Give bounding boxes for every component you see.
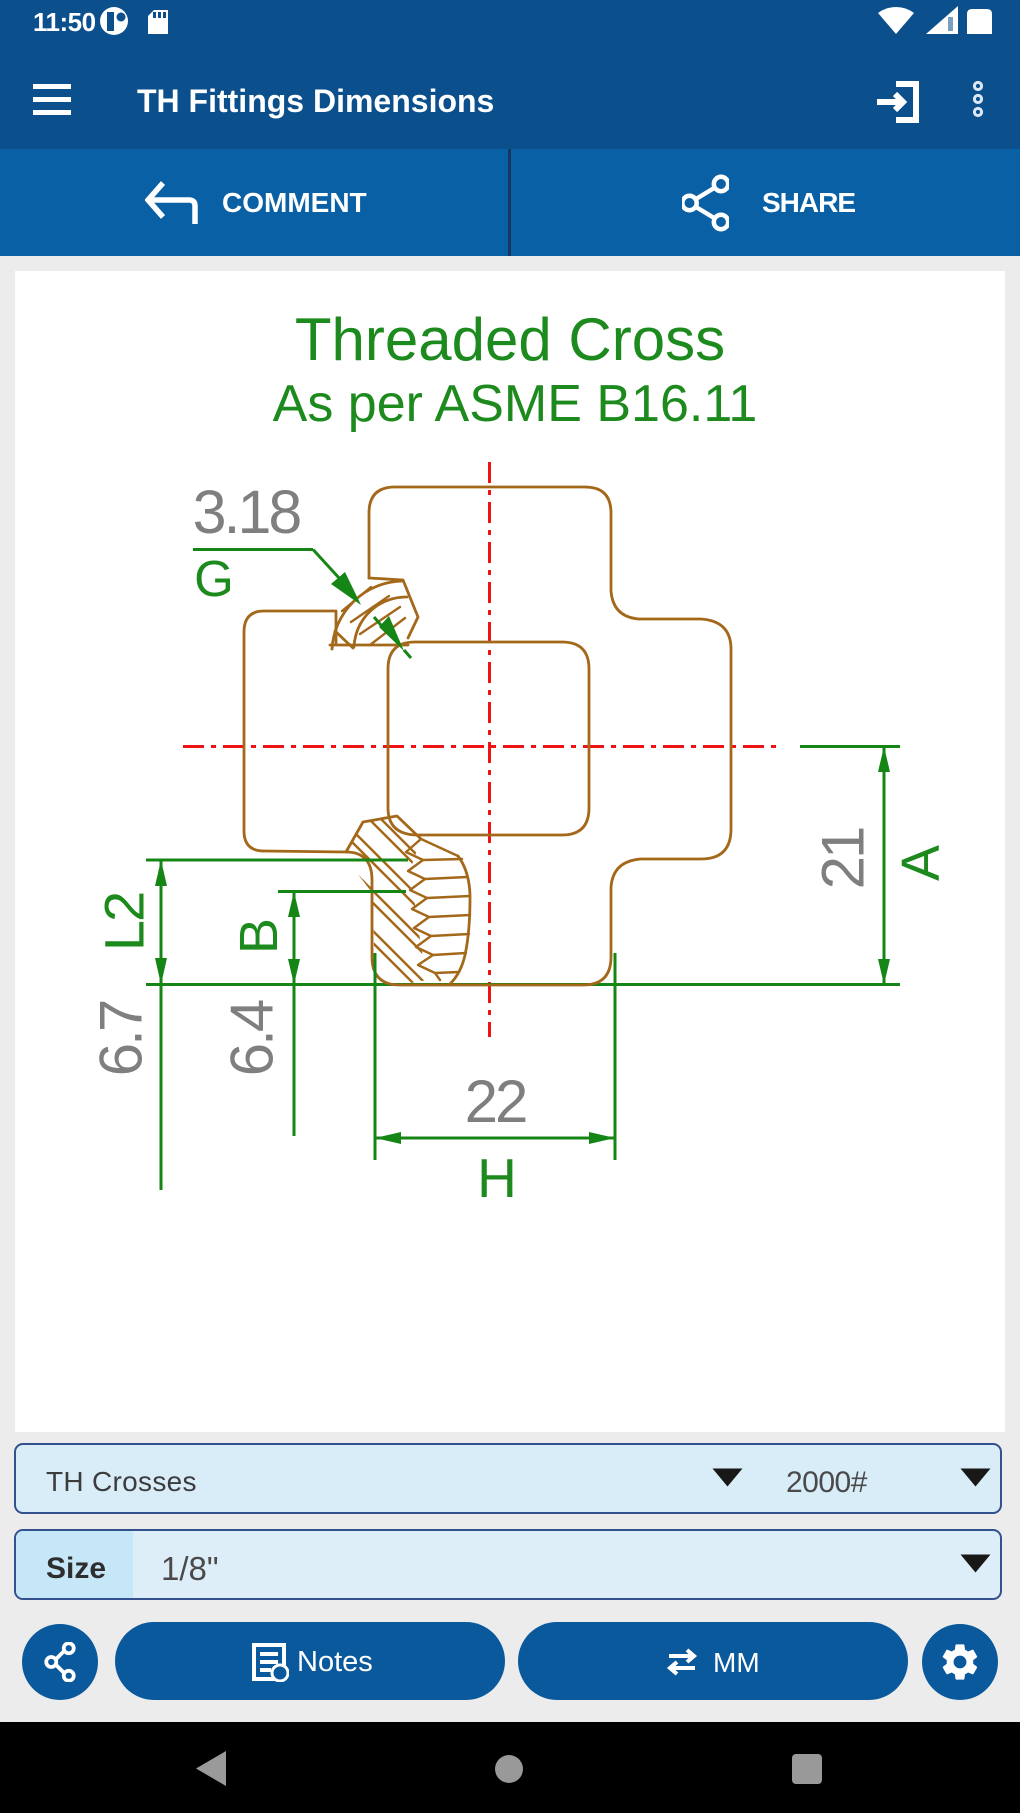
ext line A top [800, 745, 900, 748]
bottom buttons [22, 1624, 98, 1700]
dropdown row 1 [14, 1443, 1002, 1514]
login icon [874, 78, 922, 126]
title [137, 83, 494, 120]
svg-text:G: G [194, 550, 234, 607]
svg-text:6.4: 6.4 [219, 1000, 286, 1076]
top thread chamfer edge [369, 578, 418, 638]
arrow 22 right [589, 1132, 615, 1144]
arrow A up [878, 747, 890, 773]
dim line B/6.4 vertical [293, 892, 296, 1137]
top thread inner arc [354, 597, 407, 647]
top thread left notch [335, 631, 353, 648]
thread recess floor [330, 644, 408, 647]
svg-text:B: B [229, 918, 289, 954]
svg-text:Threaded Cross: Threaded Cross [295, 306, 725, 373]
arrow A down [878, 959, 890, 985]
top thread outer arc [332, 581, 402, 649]
ext line 22 left [374, 953, 377, 1160]
dim line 22/H horizontal [375, 1137, 615, 1140]
ext line B top [278, 890, 406, 893]
green overlay dims drawn above outline [146, 550, 615, 1161]
centerline horizontal [183, 745, 783, 748]
arrow L2 down [155, 958, 167, 985]
dim line 21/A vertical [883, 747, 886, 985]
leader G arrow2 line [374, 617, 386, 631]
bottom thread tip edges [346, 816, 421, 852]
ext line bottom long [146, 983, 900, 986]
comment/share toolbar [0, 149, 1020, 256]
white drawing card [15, 271, 1005, 1432]
svg-text:A: A [891, 845, 951, 881]
bottom thread stripes [240, 810, 590, 1000]
overflow dots [968, 80, 988, 122]
leader 3.18/G diagonal [313, 550, 350, 591]
status bar content [33, 7, 96, 38]
arrow L2 up [155, 860, 167, 886]
arrow 22 left [375, 1132, 401, 1144]
cross body outline [244, 487, 731, 985]
status bar + app bar [0, 0, 1020, 149]
leader 3.18/G horizontal [193, 548, 313, 551]
ext line L2 top [146, 859, 408, 862]
svg-text:As per ASME B16.11: As per ASME B16.11 [273, 375, 758, 433]
bottom thread crest fan [421, 839, 470, 973]
svg-text:21: 21 [810, 828, 877, 889]
svg-text:3.18: 3.18 [193, 478, 301, 546]
wifi [878, 7, 914, 34]
share icon [682, 174, 729, 232]
svg-text:L2: L2 [93, 893, 156, 951]
arrowhead leader1 [331, 572, 361, 605]
leader G nub [404, 650, 411, 658]
dim line L2/6.7 vertical [160, 860, 163, 1190]
arrowhead leader2 [379, 616, 404, 651]
DRAWING SVG [15, 271, 1005, 1432]
signal [926, 6, 958, 34]
nav bar [0, 1722, 1020, 1813]
arrow B down [288, 959, 300, 985]
dropdown row 2 [14, 1529, 1002, 1600]
top thread crest chords [342, 587, 405, 645]
bottom thread right boundary [450, 856, 470, 984]
svg-text:6.7: 6.7 [88, 1001, 155, 1076]
arrow B up [288, 892, 300, 918]
battery [967, 9, 992, 34]
ext line 22 right [614, 953, 617, 1160]
hamburger [32, 82, 74, 118]
centerline vertical [488, 462, 491, 1037]
svg-text:H: H [477, 1147, 517, 1209]
comment icon [145, 180, 199, 226]
bottom thread zigzag spine [406, 839, 440, 980]
svg-text:22: 22 [465, 1068, 526, 1135]
bore inner square [388, 642, 589, 835]
